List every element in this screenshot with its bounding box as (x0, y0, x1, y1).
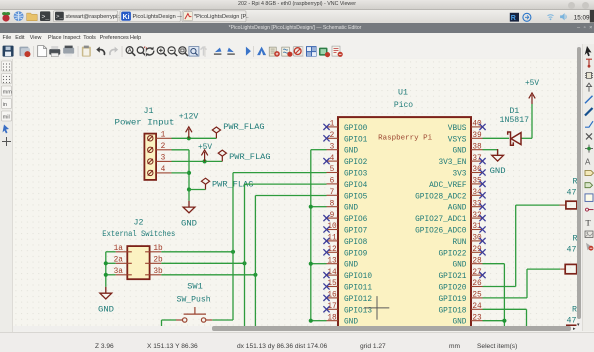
svg-text:GPIO13: GPIO13 (344, 307, 372, 315)
U1 pin 18 (GND) (326, 314, 358, 326)
U1 pin 35 (ADC_VREF) (429, 177, 485, 189)
svg-text:GND: GND (452, 261, 466, 269)
VNC viewer title bar (0, 0, 594, 10)
U1 pin 2 (GPIO1) (323, 131, 367, 143)
svg-text:39: 39 (472, 131, 482, 139)
svg-text:>_: >_ (42, 14, 50, 21)
J1 pin 1 (156, 137, 171, 139)
svg-text:2: 2 (161, 142, 166, 150)
J2 pin 3a (116, 273, 132, 275)
svg-text:GPIO1: GPIO1 (344, 136, 368, 144)
junction 1b (231, 249, 235, 253)
U1 pin 5 (GPIO3) (326, 166, 367, 178)
wire +5V vertical (531, 103, 533, 137)
right toolbar (582, 44, 594, 332)
wire U1 GND pin18 (311, 319, 327, 321)
svg-text:GPIO21: GPIO21 (438, 273, 466, 281)
svg-text:SW1: SW1 (187, 282, 203, 291)
wire GPIO20 up (515, 205, 517, 286)
svg-text:8: 8 (330, 200, 335, 208)
svg-text:3: 3 (330, 143, 335, 151)
svg-text:Ki: Ki (123, 14, 130, 21)
J2 pin 1a (116, 250, 132, 252)
U1 pin 29 (GPIO22) (438, 245, 485, 257)
svg-text:GPIO18: GPIO18 (438, 307, 466, 315)
wire SW1 left down (161, 319, 163, 325)
wire GND23 (482, 319, 504, 321)
svg-text:1N5817: 1N5817 (500, 116, 530, 125)
wire J2.3b (161, 273, 255, 275)
svg-text:A: A (585, 157, 591, 166)
U1 pin 24 (GPIO18) (438, 302, 482, 314)
U1 pin 6 (GPIO4) (326, 177, 367, 189)
power symbol +5V (top right) (529, 92, 535, 103)
U1 pin 4 (GPIO2) (323, 154, 367, 166)
junction GND pin18 (309, 318, 313, 322)
J1 pin 3 (156, 160, 171, 162)
U1 pin 33 (AGND) (448, 200, 486, 212)
junction GND pin13 (309, 261, 313, 265)
svg-text:VSYS: VSYS (448, 136, 467, 144)
wire to U1 GPIO3 (233, 171, 326, 173)
svg-text:GPIO7: GPIO7 (344, 227, 368, 235)
U1 pin 3 (GND) (326, 143, 358, 155)
wire to PWR_FLAG3 (189, 188, 205, 190)
svg-text:*PicoLightsDesign [P..: *PicoLightsDesign [P.. (194, 14, 249, 20)
svg-text:PWR_FLAG: PWR_FLAG (223, 123, 264, 132)
U1 pin 32 (GPIO27_ADC1) (415, 211, 485, 223)
wire to GND symbol (188, 189, 190, 200)
svg-text:1: 1 (330, 120, 335, 128)
U1 pin 30 (RUN) (452, 234, 485, 246)
switch SW1 SW_Push (176, 282, 212, 322)
U1 pin 31 (GPIO26_ADC0) (415, 223, 485, 235)
cursor crosshair (364, 296, 389, 320)
svg-text:Power Input: Power Input (115, 118, 175, 127)
schematic canvas (13, 59, 577, 326)
svg-text:External Switches: External Switches (102, 228, 175, 238)
svg-text:GPIO22: GPIO22 (438, 250, 466, 258)
svg-text:4: 4 (330, 154, 335, 162)
U1 pin 28 (GND) (452, 257, 482, 269)
svg-text:7: 7 (330, 188, 335, 196)
wire SW1 left (162, 318, 176, 320)
svg-text:GND: GND (181, 219, 197, 228)
wire GND bus vertical (310, 149, 312, 320)
svg-text:GPIO28_ADC2: GPIO28_ADC2 (415, 193, 467, 201)
svg-text:in: in (3, 101, 7, 107)
power symbol +12V (186, 126, 192, 137)
svg-text:GND: GND (344, 318, 358, 326)
ground GND (J2) (100, 286, 112, 298)
wire J1.4 (GND net) (172, 171, 189, 173)
junction GND23 (502, 318, 506, 322)
svg-text:GPIO8: GPIO8 (344, 238, 368, 246)
U1 pin 13 (GND) (326, 257, 358, 269)
svg-text:25: 25 (472, 291, 482, 299)
wire net SW1/1b vertical (232, 172, 234, 319)
svg-text:4: 4 (161, 165, 166, 173)
U1 pin 14 (GPIO10) (323, 268, 372, 280)
U1 pin 23 (GND) (452, 314, 482, 326)
junction J2.2a (104, 261, 108, 265)
wire GPIO19 up (526, 269, 528, 298)
wire to R2 (527, 268, 560, 270)
svg-text:18: 18 (327, 314, 337, 322)
svg-text:GPIO3: GPIO3 (344, 170, 368, 178)
svg-text:T: T (586, 217, 592, 227)
svg-text:SW_Push: SW_Push (177, 294, 211, 304)
svg-text:stewart@raspberrypi:..: stewart@raspberrypi:.. (66, 14, 123, 20)
wire J2.2a (106, 262, 116, 264)
svg-text:mil: mil (3, 114, 10, 120)
svg-text:47: 47 (567, 316, 577, 325)
svg-text:GPIO26_ADC0: GPIO26_ADC0 (415, 227, 467, 235)
wire J1.1 to PWR_FLAG (+12V net) (172, 137, 217, 139)
diode D1 1N5817 (500, 106, 530, 144)
connector J1 Power Input (screw terminal 01x04) (115, 106, 175, 179)
J2 pin 2a (116, 262, 132, 264)
svg-text:GPIO20: GPIO20 (438, 284, 466, 292)
wire GND38 (482, 148, 497, 150)
svg-text:GPIO4: GPIO4 (344, 181, 368, 189)
J2 pin 1b (145, 250, 161, 252)
resistor R1 47ohm (559, 177, 577, 208)
wire U1 GND pin3 (311, 148, 327, 150)
svg-text:GPIO10: GPIO10 (344, 273, 372, 281)
svg-text:38: 38 (472, 143, 482, 151)
J2 pin 3b (145, 273, 161, 275)
svg-text:U1: U1 (398, 88, 408, 97)
svg-text:9: 9 (330, 211, 335, 219)
svg-text:GPIO9: GPIO9 (344, 250, 368, 258)
power flag PWR_FLAG3 (201, 178, 209, 189)
svg-text:GND: GND (344, 261, 358, 269)
wire J2.2b (161, 262, 244, 264)
svg-text:RUN: RUN (452, 238, 466, 246)
wire U1 GND pin13 (311, 262, 327, 264)
svg-text:2: 2 (330, 131, 335, 139)
U1 pin 10 (GPIO7) (323, 223, 367, 235)
wire GND28 (482, 262, 504, 264)
IC U1 Raspberry Pi Pico (338, 88, 471, 329)
svg-text:3V3: 3V3 (452, 170, 466, 178)
wire SW1 right to 1b net (212, 318, 233, 320)
svg-text:R: R (511, 15, 516, 22)
resistor R2 47ohm (560, 234, 577, 273)
wire J2.3a (106, 273, 116, 275)
svg-text:3: 3 (161, 154, 166, 162)
left toolbar (0, 59, 13, 332)
vertical scrollbar (577, 44, 583, 332)
svg-text:AGND: AGND (448, 204, 467, 212)
status bar (0, 332, 594, 352)
U1 pin 40 (VBUS) (448, 120, 486, 132)
U1 pin 26 (GPIO20) (438, 280, 482, 292)
horizontal scrollbar (13, 326, 577, 332)
desktop taskbar (0, 10, 594, 23)
svg-text:23: 23 (472, 314, 482, 322)
wire J2 gnd bus (105, 251, 107, 286)
svg-text:PicoLightsDesign —: PicoLightsDesign — (133, 14, 184, 20)
svg-text:47: 47 (567, 245, 577, 254)
resistor R3 47ohm (mostly cut off) (566, 305, 577, 325)
ground GND (U1 pin38) (492, 148, 504, 160)
J1 pin 2 (156, 148, 171, 150)
svg-text:3V3_EN: 3V3_EN (438, 159, 466, 167)
svg-text:mm: mm (3, 89, 13, 95)
junction GND / J1.4 (187, 170, 191, 174)
wire to R1 (516, 204, 560, 206)
U1 pin 16 (GPIO12) (323, 291, 372, 303)
junction 2b (242, 261, 246, 265)
U1 pin 15 (GPIO11) (323, 280, 372, 292)
svg-text:13: 13 (327, 257, 337, 265)
svg-text:A: A (128, 48, 132, 54)
wire J1.2 (GND net) (172, 148, 189, 150)
svg-text:GND: GND (452, 147, 466, 155)
U1 pin 8 (GND) (326, 200, 358, 212)
svg-text:D1: D1 (509, 106, 519, 115)
svg-text:GPIO2: GPIO2 (344, 159, 368, 167)
svg-text:>_: >_ (56, 13, 63, 20)
connector J2 External Switches (02x03) (102, 218, 175, 279)
U1 pin 39 (VSYS) (448, 131, 483, 143)
svg-text:GPIO0: GPIO0 (344, 124, 368, 132)
KiCad window title bar (0, 23, 594, 34)
U1 pin 9 (GPIO6) (323, 211, 367, 223)
top toolbar (0, 44, 594, 59)
svg-text:ADC_VREF: ADC_VREF (429, 181, 467, 189)
U1 pin 7 (GPIO5) (326, 188, 367, 200)
junction +5V (203, 159, 207, 163)
wire GND vertical (188, 149, 190, 189)
svg-text:Pico: Pico (394, 99, 413, 109)
svg-text:28: 28 (472, 257, 482, 265)
menu bar (0, 33, 594, 44)
svg-text:GND: GND (490, 167, 506, 176)
power flag PWR_FLAG2 (218, 150, 226, 161)
junction 3b (253, 272, 257, 276)
svg-text:GND: GND (344, 147, 358, 155)
svg-text:GND: GND (98, 305, 114, 314)
wire net 2b vertical (244, 184, 246, 326)
wire net 3b vertical (254, 195, 256, 326)
wire GND38 down (497, 149, 499, 153)
svg-text:15:09: 15:09 (574, 14, 590, 21)
power flag PWR_FLAG1 (212, 126, 220, 137)
svg-text:J2: J2 (134, 218, 144, 227)
svg-text:1: 1 (161, 131, 166, 139)
wire J1.3 (+5V net) (172, 160, 223, 162)
svg-text:5: 5 (330, 166, 335, 174)
svg-text:GPIO5: GPIO5 (344, 193, 368, 201)
svg-text:+5V: +5V (525, 78, 539, 87)
svg-text:6: 6 (330, 177, 335, 185)
wire VSYS to D1 (482, 137, 508, 139)
wire J2.1b (161, 250, 233, 252)
U1 pin 27 (GPIO21) (438, 268, 485, 280)
svg-text:J1: J1 (144, 106, 154, 115)
svg-text:VBUS: VBUS (448, 124, 467, 132)
svg-text:+12V: +12V (179, 112, 199, 121)
svg-text:GPIO12: GPIO12 (344, 295, 372, 303)
wire to U1 GPIO4 (245, 183, 327, 185)
U1 pin 17 (GPIO13) (323, 302, 372, 314)
wire D1 to +5V (521, 137, 532, 139)
svg-text:24: 24 (472, 302, 482, 310)
U1 pin 25 (GPIO19) (438, 291, 482, 303)
wire to U1 GPIO5 (255, 194, 326, 196)
junction GND / PWR_FLAG3 (187, 187, 191, 191)
svg-text:+5V: +5V (198, 142, 212, 151)
svg-text:GND: GND (344, 204, 358, 212)
wire GPIO20 (482, 285, 515, 287)
U1 pin 12 (GPIO9) (323, 245, 367, 257)
junction J2.3a (104, 272, 108, 276)
svg-text:GPIO27_ADC1: GPIO27_ADC1 (415, 216, 467, 224)
svg-text:GND: GND (452, 318, 466, 326)
U1 pin 37 (3V3_EN) (438, 154, 485, 166)
wire GPIO18 down (525, 309, 527, 326)
junction GND pin8 (309, 204, 313, 208)
svg-text:GPIO19: GPIO19 (438, 295, 466, 303)
svg-text:47: 47 (567, 188, 577, 197)
wire GND28-23 vertical (503, 263, 505, 326)
wire GPIO19 (482, 296, 526, 298)
svg-text:GPIO6: GPIO6 (344, 216, 368, 224)
svg-text:26: 26 (472, 280, 482, 288)
U1 pin 1 (GPIO0) (323, 120, 367, 132)
wire GPIO18 (482, 308, 526, 310)
ground GND (J1) (183, 200, 195, 212)
svg-text:Raspberry Pi: Raspberry Pi (378, 134, 432, 142)
U1 pin 11 (GPIO8) (323, 234, 367, 246)
U1 pin 34 (GPIO28_ADC2) (415, 188, 485, 200)
svg-text:PWR_FLAG: PWR_FLAG (229, 153, 270, 162)
J2 pin 2b (145, 262, 161, 264)
wire U1 GND pin8 (311, 205, 327, 207)
wire J2.1a (106, 250, 116, 252)
svg-text:GPIO11: GPIO11 (344, 284, 372, 292)
power symbol +5V (201, 149, 207, 160)
U1 pin 38 (GND) (452, 143, 482, 155)
junction +12V (187, 136, 191, 140)
U1 pin 36 (3V3) (452, 166, 485, 178)
J1 pin 4 (156, 171, 171, 173)
